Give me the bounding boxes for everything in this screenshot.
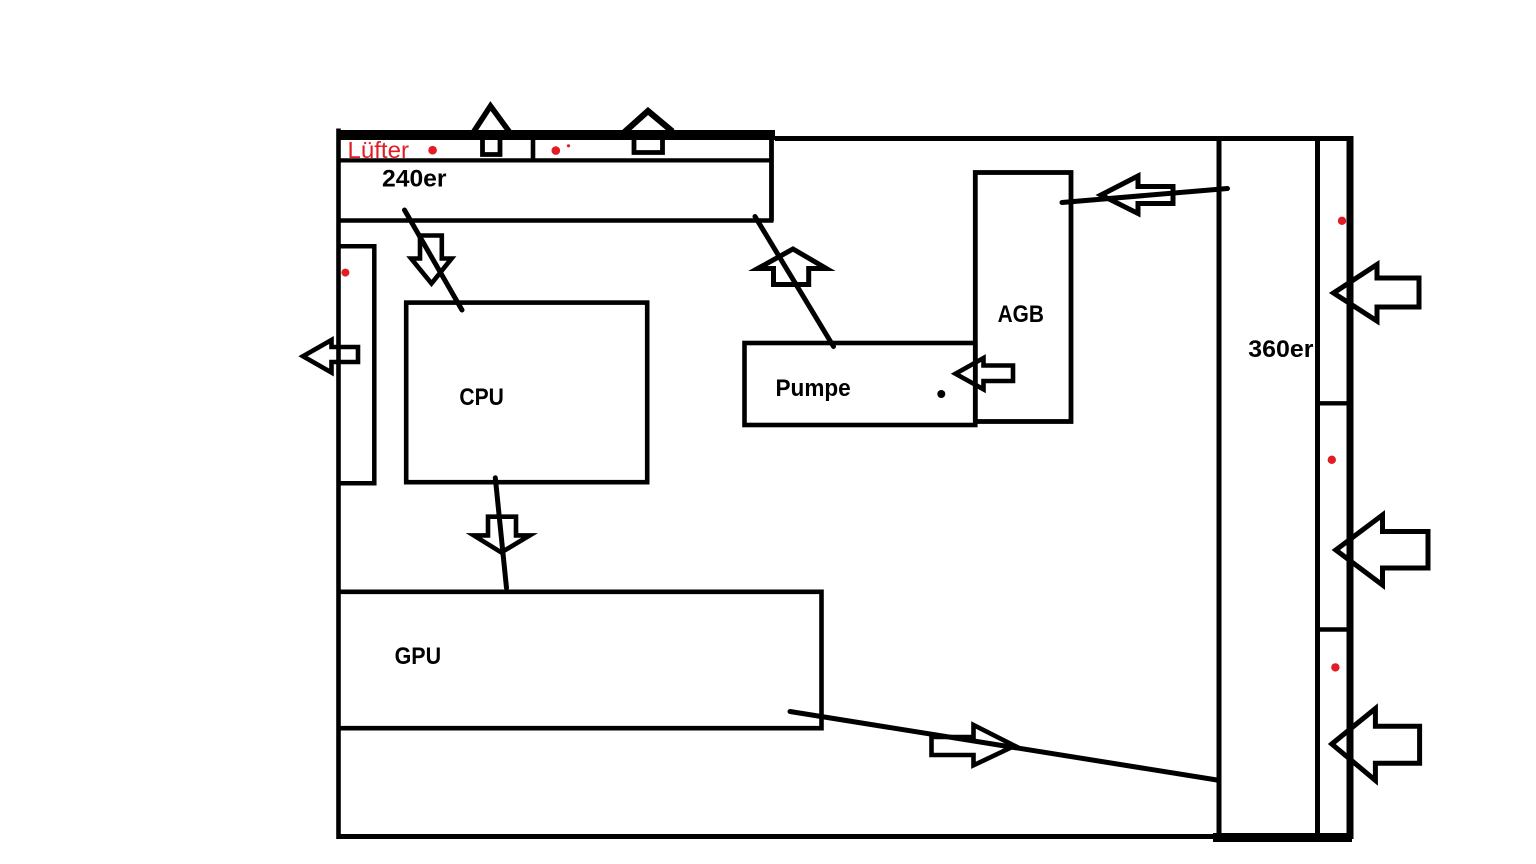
radiator 240er bottom line: [338, 218, 774, 223]
svg-text:CPU: CPU: [459, 384, 503, 411]
right fan red dot 1: [1338, 217, 1346, 225]
flow down arrow to CPU: [411, 236, 452, 284]
radiator 360er left edge: [1217, 138, 1222, 837]
case right wall: [1347, 136, 1354, 839]
case top thick bar: [337, 130, 776, 140]
fan red dot top 2: [552, 146, 561, 155]
top fan strip / radiator 240er right edge: [769, 139, 774, 221]
case bottom wall: [337, 834, 1221, 839]
left fan strip: [338, 246, 374, 483]
right intake arrow middle: [1336, 515, 1428, 585]
svg-text:240er: 240er: [382, 166, 447, 193]
GPU block: [338, 592, 822, 728]
svg-text:Lüfter: Lüfter: [348, 137, 410, 163]
svg-text:AGB: AGB: [998, 301, 1044, 328]
flow right arrow to 360er: [932, 725, 1015, 765]
top up arrow 1 head: [474, 106, 510, 132]
CPU block: [406, 303, 647, 483]
top up arrow 2 head: [624, 111, 673, 133]
red speck: [567, 144, 570, 147]
radiator 360er right edge: [1315, 138, 1320, 837]
left fan red dot: [341, 269, 349, 277]
right intake arrow bottom: [1332, 709, 1420, 781]
svg-text:Pumpe: Pumpe: [776, 375, 851, 402]
flow up arrow to 240er: [758, 249, 827, 285]
wire 240er to Pumpe: [755, 217, 834, 347]
AGB block: [975, 173, 1071, 422]
top fan strip divider: [531, 140, 536, 162]
wire CPU to GPU: [495, 478, 506, 588]
top fan strip bottom line: [338, 158, 772, 162]
wire 240er to CPU: [405, 210, 463, 310]
Pumpe block: [745, 343, 976, 425]
top up arrow 1 stem: [483, 139, 501, 155]
right fan strip divider 2: [1317, 627, 1347, 631]
right fan red dot 3: [1331, 663, 1339, 671]
left exhaust arrow: [303, 340, 358, 373]
right fan strip divider 1: [1316, 401, 1353, 405]
svg-text:360er: 360er: [1248, 336, 1313, 363]
flow down arrow to GPU: [474, 517, 530, 553]
top up arrow 2 stem: [634, 140, 663, 153]
fan red dot top 1: [428, 146, 437, 155]
right intake arrow top: [1334, 265, 1420, 322]
case top wall right segment: [775, 136, 1353, 141]
flow left arrow to AGB: [1101, 176, 1173, 214]
wire 360er to AGB: [1062, 189, 1228, 203]
radiator 360er bottom thick bar: [1213, 833, 1352, 842]
case left wall: [336, 129, 341, 840]
wire GPU to 360er: [790, 712, 1217, 781]
flow left arrow AGB to Pumpe: [956, 358, 1014, 389]
svg-text:GPU: GPU: [395, 643, 442, 670]
Pumpe inlet dot: [937, 390, 945, 398]
right fan red dot 2: [1328, 456, 1336, 464]
